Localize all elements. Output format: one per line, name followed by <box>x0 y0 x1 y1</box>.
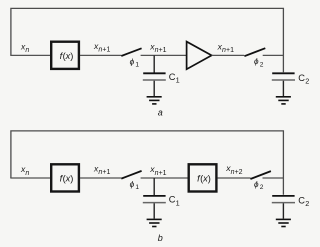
wire input x_n segment (b) <box>10 177 50 179</box>
node x_n label (a) <box>20 41 29 54</box>
svg-text:1: 1 <box>135 184 139 191</box>
switch S1 phi1 (b): open blade <box>121 171 141 179</box>
wire input x_n segment (a) <box>10 54 50 56</box>
wire switch phi1 to second f(x) (b), through C1 node <box>141 177 188 179</box>
capacitor C2 (b): bottom plate <box>272 202 295 204</box>
svg-text:1: 1 <box>176 198 180 207</box>
wire buffer output to switch phi2 (a) <box>212 54 245 56</box>
value label C2 (b) <box>298 195 309 208</box>
capacitor C2 (a): top plate <box>272 72 294 74</box>
svg-text:ϕ: ϕ <box>254 57 259 66</box>
svg-text:ϕ: ϕ <box>130 180 135 189</box>
op-amp buffer A1 (a) <box>187 42 212 70</box>
switch S2 phi2 (a): open blade <box>244 48 265 56</box>
svg-text:ϕ: ϕ <box>254 180 259 189</box>
svg-text:1: 1 <box>135 61 139 68</box>
svg-text:a: a <box>158 107 163 117</box>
svg-text:+1: +1 <box>226 47 234 54</box>
wire feedback loop (b): left vertical, top horizontal, right vertical down to C2 <box>11 131 284 195</box>
capacitor C1 (b): bottom plate <box>143 202 166 204</box>
svg-text:): ) <box>70 51 73 61</box>
capacitor C2 (a): bottom plate <box>272 79 295 81</box>
value label C2 (a) <box>298 73 309 86</box>
svg-text:ϕ: ϕ <box>130 57 135 66</box>
label phi2 (b) <box>254 180 264 191</box>
block f(x) U1 (a) <box>51 42 79 69</box>
ground under C1 (b) <box>147 219 162 226</box>
node x_n+1 label after buffer (a) <box>217 41 234 54</box>
label phi2 (a) <box>254 57 264 68</box>
svg-text:+1: +1 <box>102 47 110 54</box>
block f(x) U2 (b) <box>189 164 217 191</box>
capacitor C1 (a): bottom lead <box>153 81 155 96</box>
wire switch phi2 to C2 node (a) <box>263 54 284 56</box>
svg-text:b: b <box>158 233 163 243</box>
capacitor C2 (b): bottom lead <box>282 203 284 218</box>
node x_n+1 label at C1 node (b) <box>149 164 166 177</box>
switch S2 phi2 (b): open blade <box>250 171 271 179</box>
block f(x) U1 (b) <box>51 164 79 191</box>
wire f(x) to switch phi1 (a) <box>80 54 121 56</box>
node x_n+1 label at C1 node (a) <box>149 41 166 54</box>
capacitor C2 (a): bottom lead <box>282 81 284 96</box>
svg-text:+2: +2 <box>235 169 243 176</box>
svg-text:1: 1 <box>176 76 180 85</box>
svg-text:2: 2 <box>260 62 264 69</box>
svg-text:2: 2 <box>305 77 309 86</box>
switch S1 phi1 (a): open blade <box>121 48 141 56</box>
capacitor C1 (b): bottom lead <box>153 203 155 218</box>
ground under C1 (a) <box>147 97 162 104</box>
svg-text:n: n <box>25 47 29 54</box>
capacitor C1 (b): top lead <box>153 178 155 195</box>
svg-text:n: n <box>25 170 29 177</box>
ground under C2 (a) <box>276 97 291 104</box>
wire second f(x) to switch phi2 (b) <box>218 177 251 179</box>
svg-text:): ) <box>70 173 73 183</box>
wire switch phi1 to buffer (a), through C1 node <box>141 54 187 56</box>
svg-text:): ) <box>208 173 211 183</box>
value label C1 (a) <box>169 72 180 85</box>
capacitor C1 (a): bottom plate <box>143 79 166 81</box>
wire switch phi2 to C2 node (b) <box>263 177 284 179</box>
svg-text:2: 2 <box>260 184 264 191</box>
node x_n+2 label after second f(x) (b) <box>225 163 242 176</box>
svg-text:+1: +1 <box>159 170 167 177</box>
svg-text:+1: +1 <box>159 47 167 54</box>
capacitor C1 (b): top plate <box>143 195 165 197</box>
label phi1 (a) <box>130 57 140 68</box>
svg-text:+1: +1 <box>102 169 110 176</box>
node x_n+1 label after f(x) (a) <box>93 41 110 54</box>
svg-text:2: 2 <box>305 199 309 208</box>
capacitor C2 (b): top plate <box>272 195 294 197</box>
node x_n label (b) <box>20 164 29 177</box>
wire feedback loop (a): left vertical, top horizontal, right vertical down to C2 <box>11 8 284 72</box>
ground under C2 (b) <box>276 219 291 226</box>
value label C1 (b) <box>169 195 180 208</box>
node x_n+1 label after first f(x) (b) <box>93 163 110 176</box>
label phi1 (b) <box>130 180 140 191</box>
capacitor C1 (a): top plate <box>143 72 165 74</box>
wire f(x) to switch phi1 (b) <box>80 177 121 179</box>
capacitor C1 (a): top lead <box>153 55 155 72</box>
